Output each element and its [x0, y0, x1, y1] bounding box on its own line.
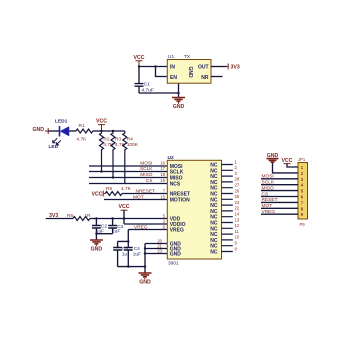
svg-text:GND: GND: [139, 280, 151, 286]
svg-text:TX: TX: [184, 54, 191, 60]
wire net MOSI (JP1 pin3): [261, 174, 298, 180]
wire net MISO: [89, 172, 167, 178]
svg-text:11: 11: [235, 229, 240, 234]
resistor R4 100K: [123, 131, 139, 183]
svg-text:VCC: VCC: [134, 55, 145, 61]
svg-text:MISO: MISO: [262, 185, 275, 191]
svg-text:LED: LED: [49, 144, 59, 150]
ground GND (below U1): [172, 98, 185, 111]
svg-text:VCC: VCC: [92, 192, 103, 198]
wire VCC to U1 IN: [138, 65, 168, 67]
capacitor C2 1uF: [92, 219, 107, 235]
capacitor C5 1uF: [113, 241, 128, 266]
wire net SCLK: [89, 166, 167, 172]
resistor R3 4.7K: [111, 131, 126, 179]
svg-text:3V3: 3V3: [49, 213, 58, 219]
svg-text:22: 22: [235, 206, 240, 211]
resistor R1 4.7K: [76, 123, 93, 142]
wire net NRESET: [122, 188, 167, 194]
svg-text:16: 16: [160, 161, 165, 166]
wire pull-up bus: [100, 130, 125, 132]
connector JP1: [298, 157, 308, 227]
wire net SCLK (JP1 pin4): [261, 180, 298, 186]
svg-text:SCLK: SCLK: [140, 166, 153, 172]
resistor R6 1R: [67, 213, 91, 221]
svg-text:CS: CS: [146, 178, 153, 184]
svg-text:SCLK: SCLK: [262, 180, 275, 186]
svg-text:NC: NC: [210, 249, 218, 255]
svg-text:100K: 100K: [127, 142, 139, 148]
svg-text:14: 14: [235, 212, 240, 217]
svg-text:IN: IN: [170, 65, 175, 71]
U2 right NC pin stubs: [222, 165, 233, 252]
wire LED to R1: [69, 130, 76, 132]
power flag VCC (VDD/VDDIO): [119, 204, 130, 210]
svg-text:27: 27: [235, 183, 240, 188]
svg-text:GND: GND: [187, 66, 193, 78]
svg-text:R1: R1: [79, 123, 85, 129]
svg-text:24: 24: [235, 200, 240, 205]
svg-text:VCC: VCC: [119, 204, 130, 210]
svg-text:18: 18: [160, 172, 165, 177]
wire EN branch: [156, 67, 168, 77]
svg-text:23: 23: [157, 248, 162, 253]
svg-text:1u: 1u: [122, 251, 128, 257]
svg-text:NR: NR: [201, 75, 209, 81]
svg-text:R4: R4: [127, 137, 133, 143]
regulator U1: [167, 54, 211, 83]
power flag VCC (NRESET pull-up): [92, 191, 106, 198]
svg-text:MISO: MISO: [140, 172, 153, 178]
svg-text:VREG: VREG: [262, 209, 276, 215]
svg-text:MOT: MOT: [133, 194, 144, 200]
svg-text:4.7K: 4.7K: [77, 136, 88, 142]
ground GND (U2): [139, 273, 152, 286]
svg-text:U1: U1: [168, 54, 174, 60]
wire ground rail: [144, 244, 146, 273]
wire net MISO (JP1 pin5): [261, 185, 298, 191]
svg-text:C5: C5: [122, 246, 128, 252]
svg-text:R3: R3: [115, 137, 121, 143]
net label 3V3 (VDD feed): [46, 213, 73, 219]
resistor R5 4.7K: [105, 186, 131, 196]
svg-text:25: 25: [235, 194, 240, 199]
svg-text:EN: EN: [170, 75, 177, 81]
svg-text:NCS: NCS: [170, 182, 181, 188]
wire net CS (JP1 pin6): [261, 191, 298, 197]
wire U1 NR stub: [211, 76, 223, 78]
svg-text:26: 26: [235, 188, 240, 193]
net flag 3V3 (U1 output): [227, 64, 240, 71]
svg-text:MOT: MOT: [262, 203, 273, 209]
svg-text:JP1: JP1: [298, 157, 306, 162]
svg-text:4.7K: 4.7K: [121, 186, 132, 192]
capacitor C1 4.7uF: [135, 67, 154, 94]
wire C1 to U1 ground node: [139, 92, 179, 94]
svg-text:OUT: OUT: [198, 65, 209, 71]
wire net MOT: [104, 194, 167, 200]
capacitor C4 1uF: [124, 241, 141, 266]
svg-text:RESET: RESET: [262, 197, 278, 203]
wire VCC to JP1 pin1: [287, 164, 298, 167]
ground GND (C2 C3): [90, 240, 103, 253]
wire GND to JP1 pin2: [273, 163, 299, 173]
wire caps to ground rail: [118, 265, 145, 267]
wire U2 GND pin 20: [145, 238, 167, 243]
svg-text:R5: R5: [106, 186, 112, 192]
svg-text:VREG: VREG: [134, 224, 148, 230]
svg-text:GND: GND: [173, 104, 185, 110]
power flag VCC (U1 input): [134, 55, 145, 67]
wire net CS: [89, 178, 167, 184]
svg-text:P9: P9: [300, 222, 306, 227]
svg-text:VCC: VCC: [96, 118, 107, 124]
wire R1 to VCC bus: [93, 130, 102, 132]
svg-text:15: 15: [160, 194, 165, 199]
svg-text:GND: GND: [32, 127, 44, 133]
wire VCC stem to VDDIO: [123, 210, 125, 224]
wire net VREG (JP1 pin9): [261, 209, 298, 215]
svg-text:19: 19: [160, 178, 165, 183]
power flag VCC (pull-up bus): [96, 118, 107, 131]
svg-text:12: 12: [235, 223, 240, 228]
svg-text:28: 28: [235, 177, 240, 182]
resistor R2 4.7K: [100, 131, 115, 173]
wire net VREG: [128, 224, 167, 230]
svg-text:U2: U2: [168, 155, 174, 161]
capacitor C3 1uF: [108, 219, 123, 235]
net flag GND (LED): [32, 127, 48, 134]
wire C2 C3 ground link: [95, 233, 112, 240]
wire U2 GND pin 23: [145, 248, 167, 253]
wire net VDD to U2: [90, 213, 168, 219]
wire U1 OUT: [211, 66, 227, 68]
svg-text:CS: CS: [262, 191, 269, 197]
svg-text:MOSI: MOSI: [140, 161, 152, 167]
wire U2 GND pin 21: [145, 243, 167, 248]
power flag VCC (JP1 pin1): [282, 158, 293, 164]
U2 NC pin names and numbers: [210, 159, 240, 255]
wire VREG down to caps: [118, 230, 130, 243]
svg-text:17: 17: [160, 166, 165, 171]
svg-text:MOTION: MOTION: [170, 198, 190, 204]
wire net MOT (JP1 pin8): [261, 203, 298, 209]
svg-text:VREG: VREG: [170, 228, 184, 234]
svg-text:GND: GND: [170, 252, 182, 258]
svg-text:LED1: LED1: [55, 119, 68, 125]
svg-text:1uF: 1uF: [112, 229, 120, 235]
svg-text:GND: GND: [91, 247, 103, 253]
wire U1 GND pin: [177, 83, 179, 97]
svg-text:R2: R2: [103, 137, 109, 143]
wire net RESET (JP1 pin7): [261, 197, 298, 203]
svg-text:10: 10: [235, 235, 240, 240]
svg-text:1uF: 1uF: [133, 251, 141, 257]
wire GND flag to LED: [48, 130, 59, 132]
wire net MOSI: [89, 161, 167, 167]
svg-text:C1: C1: [144, 82, 150, 88]
svg-text:13: 13: [235, 217, 240, 222]
svg-text:MOSI: MOSI: [262, 174, 274, 180]
wire net VDDIO: [124, 219, 167, 224]
svg-text:3V3: 3V3: [231, 65, 240, 71]
svg-text:R6: R6: [67, 213, 73, 219]
IC U2 PMW3901: [167, 155, 221, 266]
ground flag GND (JP1 pin2): [267, 153, 279, 162]
svg-text:C4: C4: [134, 246, 140, 252]
LED LED1: [49, 119, 70, 151]
svg-text:3901: 3901: [168, 260, 179, 266]
svg-text:NRESET: NRESET: [136, 188, 156, 194]
